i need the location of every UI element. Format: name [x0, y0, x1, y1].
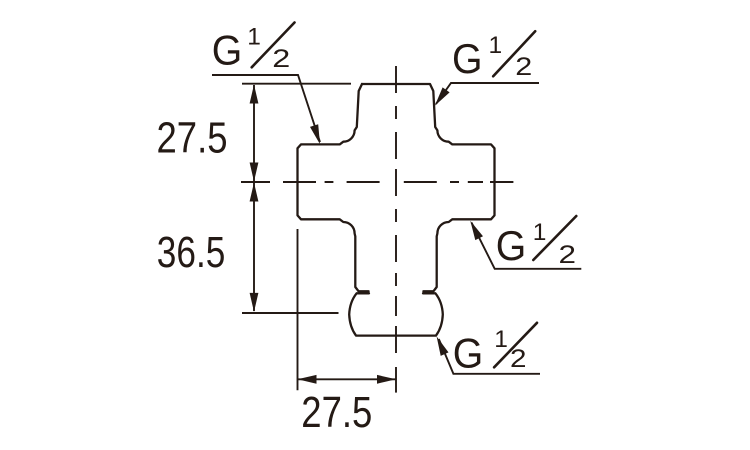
- arrowhead leader top-right: [435, 87, 450, 105]
- arrowhead left (bottom 27.5): [298, 375, 317, 384]
- svg-text:G: G: [452, 35, 483, 82]
- fitting body outline right half: [362, 84, 495, 291]
- extension line top (27.5 upper): [242, 83, 351, 85]
- fraction slash bottom-right: [494, 323, 537, 368]
- svg-text:1: 1: [489, 32, 503, 59]
- svg-text:1: 1: [494, 326, 508, 353]
- svg-text:G: G: [212, 27, 243, 74]
- fraction slash mid-right: [533, 216, 576, 260]
- leader line G1/2 bottom-right: [439, 339, 540, 374]
- extension line bottom (36.5 lower): [242, 312, 339, 314]
- svg-text:2: 2: [272, 45, 290, 73]
- svg-text:G: G: [453, 330, 484, 377]
- arrowhead leader top-left: [310, 124, 320, 144]
- horizontal dimension line 27.5: [298, 378, 397, 380]
- svg-text:2: 2: [559, 241, 577, 269]
- svg-text:27.5: 27.5: [301, 389, 372, 437]
- horizontal centerline (dash-dot): [241, 181, 513, 183]
- leader line G1/2 mid-right: [472, 223, 582, 269]
- arrowhead leader mid-right: [470, 221, 483, 240]
- arrowhead right (bottom 27.5): [377, 375, 396, 384]
- union nut (bottom barrel): [349, 293, 443, 335]
- arrowhead up (36.5 top): [250, 183, 259, 202]
- fraction slash top-right: [493, 31, 535, 76]
- arrowhead down (36.5 bottom): [250, 293, 259, 312]
- vertical centerline bottom extension: [395, 367, 397, 393]
- svg-text:G: G: [496, 222, 527, 269]
- svg-text:1: 1: [533, 219, 547, 246]
- svg-text:27.5: 27.5: [157, 115, 228, 163]
- svg-text:1: 1: [247, 23, 261, 50]
- vertical centerline (dash-dot): [395, 66, 397, 353]
- leader line G1/2 top-right: [436, 83, 539, 104]
- arrowhead leader bottom-right: [437, 336, 449, 356]
- arrowhead down (27.5 bottom): [250, 163, 259, 182]
- extension line left (bottom 27.5): [297, 229, 299, 390]
- svg-text:36.5: 36.5: [157, 229, 226, 277]
- svg-text:2: 2: [515, 53, 532, 81]
- vertical dimension line 27.5/36.5: [253, 85, 255, 311]
- arrowhead up (27.5 top): [250, 85, 259, 104]
- fitting body outline left half: [298, 84, 369, 291]
- fraction slash top-left: [252, 23, 295, 68]
- leader line G1/2 top-left: [212, 75, 320, 142]
